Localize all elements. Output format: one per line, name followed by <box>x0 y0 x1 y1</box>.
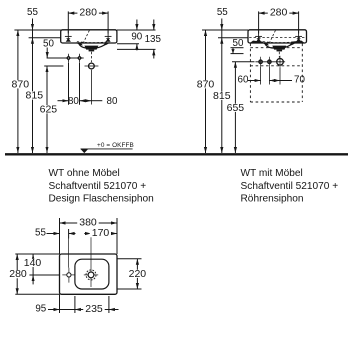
extension from diamond 2 <box>79 63 81 105</box>
svg-text:80: 80 <box>68 96 79 107</box>
cabinet dashed top line <box>250 47 302 49</box>
svg-text:Röhrensiphon: Röhrensiphon <box>241 193 304 204</box>
svg-text:80: 80 <box>107 96 118 107</box>
dim 50 lower short line <box>231 53 244 55</box>
dim 655 vertical line <box>234 62 236 153</box>
svg-text:235: 235 <box>85 303 103 315</box>
svg-text:90: 90 <box>131 31 142 42</box>
drain centerline extension below <box>90 70 92 105</box>
tap hole horizontal tick <box>84 274 98 276</box>
dim 90 reference line <box>117 43 139 45</box>
dim label 870 <box>10 80 32 88</box>
dim label 380 <box>77 218 99 226</box>
furniture cabinet dashed bottom <box>250 101 302 103</box>
dim 70 outward arrows <box>269 80 280 82</box>
380 extension left / rect edge extension <box>59 218 61 254</box>
furniture cabinet dashed right wall <box>301 44 303 103</box>
dim label 280 (plan) <box>7 270 29 278</box>
dim 140 (plan) <box>29 274 59 276</box>
bowl wall junction bumps <box>262 42 269 45</box>
plan view basin outline <box>60 254 118 294</box>
connections line <box>255 61 285 63</box>
bowl inner dashed rim <box>77 42 109 43</box>
tap hole symbol left <box>65 31 72 42</box>
overflow dashed diagonal <box>270 31 276 43</box>
dim 280 line (left drawing) <box>68 12 108 14</box>
815 level reference line <box>29 37 61 39</box>
280 extension lines (right) <box>258 11 260 33</box>
plan side hole circle <box>67 273 71 277</box>
dim 60 line/arrow <box>248 80 261 82</box>
svg-text:Schaftventil 521070 +: Schaftventil 521070 + <box>241 181 339 192</box>
side hole centerlines <box>62 274 75 276</box>
svg-text:140: 140 <box>24 257 42 269</box>
svg-text:170: 170 <box>92 227 110 239</box>
dim 280 line (right drawing) <box>259 12 299 14</box>
plan tap hole inner circle <box>88 272 94 278</box>
svg-text:WT ohne Möbel: WT ohne Möbel <box>49 168 120 179</box>
right elevation: rim level reference line <box>202 29 248 31</box>
dim 815 vertical line <box>32 38 34 153</box>
dim 870 vertical line <box>17 30 19 153</box>
svg-text:95: 95 <box>35 304 46 315</box>
dim 170 (plan) <box>84 233 91 235</box>
rim reference line right extension <box>117 29 156 31</box>
dim label 625 <box>38 105 60 113</box>
svg-text:280: 280 <box>79 7 97 19</box>
fixing hole diamond right <box>75 54 84 63</box>
dashed fixing line across basin <box>249 37 305 39</box>
svg-text:55: 55 <box>217 7 228 18</box>
floor level marker triangle <box>81 149 89 153</box>
dim 280 (plan) vertical <box>15 253 59 255</box>
dim 50 arrow (left) <box>46 48 48 59</box>
svg-text:870: 870 <box>12 78 30 90</box>
dim label 870 (right) <box>195 80 217 88</box>
svg-text:Design Flaschensiphon: Design Flaschensiphon <box>49 193 154 204</box>
dim label 140 <box>22 259 44 267</box>
svg-text:655: 655 <box>227 102 245 114</box>
dim 55 arrow (right) <box>221 19 223 38</box>
dim label 280 (right) <box>268 9 290 17</box>
bowl front curve <box>265 43 294 48</box>
dim 380 line <box>60 222 118 224</box>
dim label 815 <box>24 91 46 99</box>
dim 80-80 row: extension from diamond 1 <box>68 63 70 105</box>
plan tap hole outer dashed circle <box>86 270 96 280</box>
bowl inner dashed rim <box>263 42 295 43</box>
svg-text:55: 55 <box>27 7 38 18</box>
815 level reference line (right) <box>218 37 251 39</box>
svg-text:625: 625 <box>40 103 58 115</box>
dim 870 vertical line (right) <box>205 30 207 153</box>
bowl wall junction bumps <box>76 42 83 45</box>
svg-text:50: 50 <box>233 38 244 49</box>
tap hole symbol right <box>105 31 112 42</box>
svg-text:280: 280 <box>9 268 27 280</box>
dim label 655 <box>225 104 247 112</box>
dim 625 vertical line <box>46 66 48 153</box>
svg-text:70: 70 <box>294 75 305 86</box>
drain fitting under bowl <box>272 46 286 50</box>
basin section wedge left <box>250 41 263 43</box>
dim 135 reference line <box>117 48 156 50</box>
dim 55 arrow <box>32 19 34 38</box>
svg-text:+0 = OKFFB: +0 = OKFFB <box>97 142 134 149</box>
drain circle horizontal tick <box>85 65 99 67</box>
floor line <box>5 153 348 155</box>
625 level reference line <box>44 65 63 67</box>
svg-text:50: 50 <box>43 38 54 49</box>
svg-text:280: 280 <box>270 7 288 19</box>
basin section wedge right <box>292 41 305 43</box>
svg-text:815: 815 <box>26 90 44 102</box>
washbasin body outline <box>61 30 117 43</box>
drain connection circle <box>277 59 284 66</box>
svg-text:WT mit Möbel: WT mit Möbel <box>241 168 303 179</box>
drain dashed centerline (right) <box>278 52 280 58</box>
washbasin body outline <box>248 30 307 43</box>
tap hole symbol left <box>255 31 262 42</box>
connection centerline ticks <box>260 57 262 67</box>
dim label 220 <box>127 270 149 278</box>
water connection circle 1 <box>259 60 262 63</box>
280 extension line left <box>67 11 69 33</box>
extension line small hole <box>68 229 70 239</box>
655 level reference line <box>232 61 255 63</box>
dim 70 tail <box>280 80 292 82</box>
dim 90 arrows <box>136 20 138 31</box>
dim 80 second: outward arrows <box>80 100 92 102</box>
280 extension line right <box>107 11 109 33</box>
svg-text:870: 870 <box>197 78 215 90</box>
floor level underline <box>81 148 133 150</box>
tap hole symbol right <box>295 31 302 42</box>
dim label 80 first <box>68 98 78 106</box>
dim label 815 (right) <box>211 92 233 100</box>
svg-text:220: 220 <box>129 268 147 280</box>
bowl front curve <box>79 43 108 48</box>
svg-text:Schaftventil 521070 +: Schaftventil 521070 + <box>49 181 147 192</box>
left elevation: rim level reference line (870) <box>14 29 61 31</box>
side hole vertical centerline upper <box>68 239 70 268</box>
dim 220 (plan) <box>117 258 142 260</box>
dim 80 (first) line and arrow <box>58 100 69 102</box>
dim 60/70 row: extensions below circles <box>260 67 262 85</box>
tap hole vertical centerline <box>90 229 92 287</box>
dim 235 (plan bottom) <box>74 296 76 313</box>
svg-text:135: 135 <box>145 34 162 45</box>
furniture cabinet dashed left wall <box>249 44 251 103</box>
plan view bowl <box>75 259 109 289</box>
dim 135 arrows <box>153 20 155 31</box>
svg-text:815: 815 <box>213 90 231 102</box>
svg-text:60: 60 <box>238 75 249 86</box>
fixing holes reference line 675 level <box>47 57 83 59</box>
fixing hole diamond left <box>64 54 73 63</box>
drain dashed centerline above <box>90 52 92 62</box>
drain fitting under bowl <box>84 46 98 50</box>
overflow dashed diagonal <box>84 31 90 43</box>
dim label 280 (left) <box>77 9 99 17</box>
drain outlet circle <box>89 63 95 69</box>
cabinet dashed shelf line <box>250 65 302 67</box>
dim 50 arrow (right) <box>232 48 234 54</box>
svg-text:55: 55 <box>35 228 46 239</box>
dim 815 vertical line (right) <box>221 38 223 153</box>
water connection circle 2 <box>268 60 271 63</box>
dim 80 second tail <box>91 100 102 102</box>
dim 50 (right): upper short line <box>231 47 244 49</box>
